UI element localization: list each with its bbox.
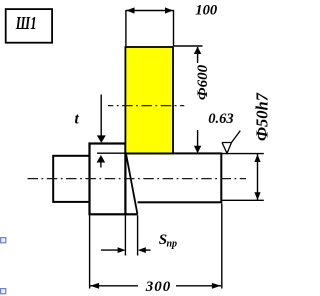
svg-text:300: 300 — [145, 279, 172, 295]
svg-text:100: 100 — [195, 3, 218, 19]
svg-text:0.63: 0.63 — [208, 111, 233, 127]
svg-text:Ф600: Ф600 — [195, 64, 211, 100]
svg-text:пр: пр — [167, 239, 178, 250]
svg-text:Ш1: Ш1 — [15, 13, 37, 33]
svg-text:Ф50h7: Ф50h7 — [253, 92, 272, 141]
svg-text:t: t — [75, 111, 80, 128]
